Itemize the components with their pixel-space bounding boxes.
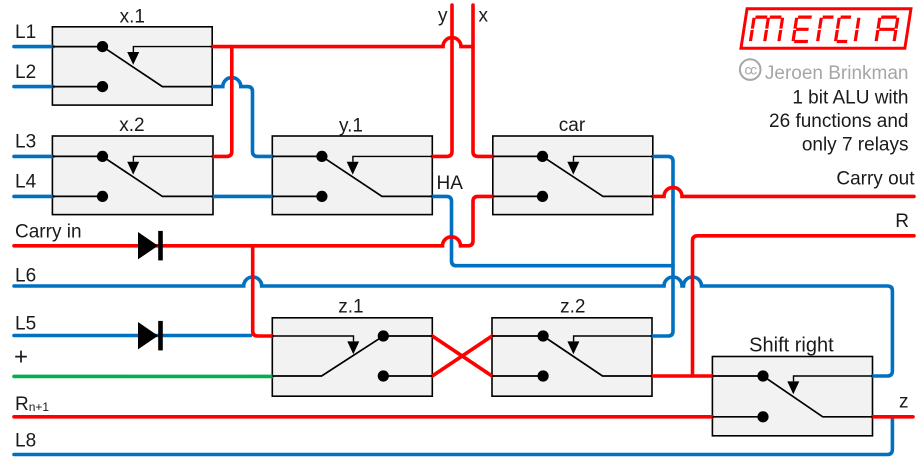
relay box x.1 bbox=[52, 27, 212, 105]
wire z.1 to z.2 cross lower bbox=[432, 336, 492, 376]
relay x.1 contact dots bbox=[97, 41, 108, 52]
svg-text:x.2: x.2 bbox=[119, 115, 144, 136]
wire z.1 to z.2 cross upper bbox=[432, 336, 492, 376]
svg-text:z.2: z.2 bbox=[560, 296, 585, 317]
wire Carry in rail with hop to car bottom input bbox=[14, 196, 493, 245]
wire Carry out with hop bbox=[653, 187, 914, 196]
relay x.1 arrow bbox=[127, 52, 139, 65]
relay box z.2 bbox=[492, 318, 652, 396]
logo letter M bbox=[750, 17, 782, 41]
wire L8 rail up to z line bbox=[14, 417, 892, 455]
svg-text:Carry out: Carry out bbox=[836, 169, 915, 190]
svg-text:R: R bbox=[895, 211, 909, 232]
diode D1 on Carry in bbox=[138, 231, 163, 261]
relay x.2 contact dots bbox=[97, 151, 108, 162]
svg-text:y.1: y.1 bbox=[339, 115, 363, 136]
wire L3 rail bbox=[14, 155, 53, 159]
wire x.2 output up to node bbox=[213, 47, 232, 157]
relay z.2 arrow bbox=[567, 341, 579, 354]
svg-text:car: car bbox=[559, 115, 586, 136]
svg-text:L6: L6 bbox=[15, 266, 36, 287]
relay y.1 contact dots bbox=[316, 151, 327, 162]
svg-text:L3: L3 bbox=[15, 132, 36, 153]
wire L4 rail bbox=[14, 195, 53, 199]
svg-text:Carry in: Carry in bbox=[15, 222, 82, 243]
svg-text:L4: L4 bbox=[15, 172, 37, 193]
svg-text:Jeroen Brinkman: Jeroen Brinkman bbox=[765, 63, 909, 84]
svg-text:1 bit ALU with: 1 bit ALU with bbox=[792, 88, 908, 109]
relay car contact dots bbox=[537, 151, 548, 162]
wire L2 rail bbox=[14, 85, 53, 89]
relay z.1 contacts and lever (mirrored) bbox=[272, 336, 432, 376]
relay Shift right contact dots bbox=[757, 370, 768, 381]
svg-text:L8: L8 bbox=[15, 431, 36, 452]
wire Rn+1 rail to shift right bottom input bbox=[14, 415, 712, 419]
relay y.1 arrow bbox=[347, 162, 359, 175]
wire y line vertical to y.1 output bbox=[432, 5, 452, 156]
logo letter I bbox=[855, 18, 859, 41]
cc logo bbox=[740, 59, 761, 80]
wire R line down to shift right input bbox=[693, 236, 915, 376]
relay y.1 contacts and lever bbox=[272, 156, 432, 196]
relay box y.1 bbox=[272, 136, 432, 215]
wire car output down to z.2 top input bbox=[652, 156, 673, 336]
svg-text:L2: L2 bbox=[15, 62, 36, 83]
relay car arrow bbox=[567, 162, 579, 175]
relay box x.2 bbox=[52, 136, 213, 215]
relay box z.1 bbox=[272, 318, 432, 396]
relay x.1 contacts and lever bbox=[52, 47, 212, 87]
svg-text:26 functions and: 26 functions and bbox=[769, 111, 908, 132]
relay x.2 arrow bbox=[127, 162, 139, 175]
relay z.1 contact dots bbox=[378, 330, 389, 341]
wire L5 rail bbox=[14, 334, 251, 338]
svg-text:L5: L5 bbox=[15, 314, 36, 335]
relay box car bbox=[493, 136, 653, 215]
logo border parallelogram bbox=[741, 9, 911, 48]
relay z.2 contact dots bbox=[538, 330, 549, 341]
relay car contacts and lever bbox=[493, 156, 653, 196]
MERCIA logo bbox=[741, 9, 911, 48]
wire x.2 output to y.1 bottom input bbox=[213, 195, 272, 199]
wire x line vertical to car top input bbox=[473, 5, 493, 156]
relay z.1 arrow bbox=[347, 341, 359, 354]
svg-text:only 7 relays: only 7 relays bbox=[802, 135, 909, 156]
svg-text:z.1: z.1 bbox=[338, 296, 363, 317]
wire Carry in branch down to z.1 top input bbox=[253, 246, 273, 336]
wire L1 rail bbox=[14, 45, 53, 49]
logo letter A bbox=[876, 17, 898, 41]
logo letter C bbox=[835, 17, 850, 41]
wire x.1 output with hop over y line to x line bbox=[212, 38, 473, 47]
svg-text:y: y bbox=[438, 6, 448, 27]
wire y.1 output down and right to node bbox=[432, 196, 673, 265]
svg-text:z: z bbox=[899, 391, 909, 412]
wire z.2 output to shift right top input bbox=[652, 374, 712, 378]
wire L6 rail with hops to shift right top input bbox=[14, 277, 892, 376]
relay Shift right contacts and lever bbox=[712, 376, 872, 417]
wire z output bbox=[873, 415, 914, 419]
logo letter r bbox=[818, 17, 834, 41]
logo letter E bbox=[793, 17, 812, 41]
diode D2 on L5 bbox=[138, 321, 163, 351]
svg-text:x.1: x.1 bbox=[120, 6, 145, 27]
relay x.2 contacts and lever bbox=[52, 156, 213, 196]
relay z.2 contacts and lever bbox=[492, 336, 652, 376]
svg-text:cc: cc bbox=[744, 62, 757, 78]
svg-text:+: + bbox=[14, 344, 28, 371]
svg-text:Shift right: Shift right bbox=[749, 334, 834, 356]
svg-text:x: x bbox=[479, 6, 489, 27]
svg-text:HA: HA bbox=[437, 173, 464, 194]
wire x.1 output to y.1 top input with hop over red bbox=[212, 78, 272, 157]
wire + rail green bbox=[14, 375, 272, 379]
relay Shift right arrow bbox=[787, 381, 799, 394]
svg-text:L1: L1 bbox=[15, 22, 36, 43]
relay box Shift right bbox=[712, 357, 872, 436]
